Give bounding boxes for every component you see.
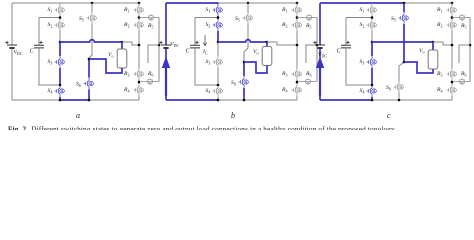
backup switch R3 (a) bbox=[134, 68, 144, 80]
wire S5 top lead (c) bbox=[403, 3, 405, 12]
wire load top to R-chain link (b) bbox=[267, 42, 297, 45]
svg-text:Vo: Vo bbox=[108, 52, 113, 58]
svg-text:R6: R6 bbox=[460, 71, 466, 77]
backup switch R2 (a) bbox=[134, 19, 144, 31]
svg-text:R5: R5 bbox=[147, 23, 153, 29]
node S1-S2 junction (a) bbox=[59, 16, 61, 19]
svg-text:S5: S5 bbox=[79, 16, 84, 22]
wire S1 top lead (c) bbox=[371, 3, 373, 4]
node top rail over S5 (a) bbox=[91, 2, 94, 5]
switch S4 (c) bbox=[367, 85, 377, 97]
svg-text:S2: S2 bbox=[360, 22, 365, 28]
wire capacitor top (a) bbox=[39, 17, 60, 19]
wire bottom rail left (b) bbox=[166, 99, 218, 101]
dc source V_DC plates bbox=[7, 44, 17, 46]
svg-text:R2: R2 bbox=[281, 22, 287, 28]
node top rail R-chain corner (c) bbox=[451, 2, 454, 5]
node top rail over S5 (c) bbox=[403, 2, 406, 5]
node load top (c) bbox=[432, 41, 435, 44]
backup switch R4 (a) bbox=[134, 84, 144, 96]
wire load bottom staircase (c) bbox=[404, 62, 433, 73]
svg-text:S3: S3 bbox=[206, 59, 211, 65]
wire capacitor top (b) bbox=[195, 17, 218, 19]
svg-text:S2: S2 bbox=[48, 22, 53, 28]
wire S5-S6 chain segment (b) bbox=[244, 24, 248, 62]
wire load bottom staircase (a) bbox=[89, 59, 122, 73]
svg-text:R2: R2 bbox=[123, 22, 129, 28]
svg-text:S5: S5 bbox=[391, 16, 396, 22]
dc source V_DC (a) bbox=[7, 45, 17, 48]
switch S3 (a) bbox=[55, 56, 65, 68]
switch S1 (b) bbox=[213, 4, 223, 16]
node S3-S4 capacitor junction (c) bbox=[371, 84, 374, 87]
load resistor box (a) bbox=[117, 49, 127, 68]
dc source V_DC (b) bbox=[161, 45, 171, 48]
svg-text:R5: R5 bbox=[460, 23, 466, 29]
wire top rail right (b) bbox=[248, 2, 297, 4]
wire battery lower (a) bbox=[11, 48, 13, 100]
backup switch R6 horizontal (a) bbox=[141, 78, 159, 84]
wire load top stub (a) bbox=[121, 42, 123, 49]
svg-text:S5: S5 bbox=[235, 16, 240, 22]
wire S6 to bottom rail (b) bbox=[243, 88, 245, 100]
wire S3 to junction (c) bbox=[371, 68, 373, 85]
wire node A to S3 (b) bbox=[217, 42, 219, 56]
node R1-R2 junction (a) bbox=[138, 16, 140, 19]
svg-text:S1: S1 bbox=[48, 7, 53, 13]
svg-text:S4: S4 bbox=[206, 88, 211, 94]
svg-text:S6: S6 bbox=[231, 80, 236, 86]
svg-text:R1: R1 bbox=[123, 7, 129, 13]
wire bottom rail right (a) bbox=[89, 99, 139, 101]
node bottom rail under S4 (c) bbox=[371, 99, 374, 102]
wire load top to R-chain link (a) bbox=[122, 42, 139, 45]
plus sign battery (b) bbox=[159, 41, 162, 44]
current arrow battery discharge (b) bbox=[165, 66, 167, 96]
node A dot (b) bbox=[217, 41, 220, 44]
wire R4 to bottom rail (b) bbox=[296, 96, 298, 100]
switch S6 (a) bbox=[84, 78, 94, 90]
node R3-R4 junction (b) bbox=[296, 80, 298, 84]
svg-text:VDC: VDC bbox=[318, 52, 327, 58]
wire node A to S3 (a) bbox=[59, 42, 61, 56]
switch S1 (c) bbox=[367, 4, 377, 16]
wire capacitor bottom (a) bbox=[39, 48, 60, 85]
svg-text:VDC: VDC bbox=[14, 50, 23, 56]
node S1-S2 junction (c) bbox=[371, 16, 373, 19]
wire S1 top lead (a) bbox=[59, 3, 61, 4]
switch S5 (a) bbox=[87, 12, 97, 24]
wire battery lower (b) bbox=[165, 48, 167, 100]
wire outer rail stub (c) bbox=[459, 45, 470, 63]
wire outer rail stub (a) bbox=[148, 45, 159, 63]
wire top rail mid (c) bbox=[372, 2, 404, 4]
svg-text:S3: S3 bbox=[360, 59, 365, 65]
wire S4 to bottom rail (c) bbox=[371, 97, 373, 100]
wire node A to load top with crossover hop (b) bbox=[218, 40, 267, 42]
wire bottom rail right (b) bbox=[244, 99, 297, 101]
wire bottom rail mid (b) bbox=[218, 99, 244, 101]
svg-text:R4: R4 bbox=[436, 87, 442, 93]
wire outer rail right (b) bbox=[316, 18, 318, 82]
wire R1 top lead (c) bbox=[451, 3, 453, 4]
node load bottom junction (c) bbox=[403, 61, 406, 64]
wire bottom rail mid (c) bbox=[372, 99, 399, 101]
wire R2 to mid junction (a) bbox=[138, 31, 140, 68]
wire R4 to bottom rail (c) bbox=[451, 96, 453, 100]
wire top rail right (a) bbox=[92, 2, 139, 4]
node top rail R-chain corner (a) bbox=[138, 2, 141, 5]
svg-text:S4: S4 bbox=[48, 88, 53, 94]
wire S2 to node A (c) bbox=[371, 31, 373, 42]
load resistor box (b) bbox=[262, 47, 272, 66]
wire S1 top lead (b) bbox=[217, 3, 219, 4]
svg-text:a: a bbox=[76, 111, 80, 120]
node bottom rail under S4 (a) bbox=[59, 99, 62, 102]
backup switch R5 horizontal (b) bbox=[297, 14, 317, 20]
backup switch R4 (b) bbox=[292, 84, 302, 96]
switch S2 (c) bbox=[367, 19, 377, 31]
wire load bottom staircase (b) bbox=[244, 62, 267, 73]
plus sign capacitor (b) bbox=[195, 41, 198, 44]
svg-text:R3: R3 bbox=[123, 71, 129, 77]
node R-chain mid (c) bbox=[451, 44, 454, 47]
wire capacitor bottom (c) bbox=[346, 48, 372, 85]
wire bottom rail left (c) bbox=[320, 99, 372, 101]
load resistor box (c) bbox=[428, 50, 438, 69]
node S3-S4 capacitor junction (b) bbox=[217, 84, 220, 87]
wire node A to load top with crossover hop (a) bbox=[60, 40, 122, 42]
wire S5-S6 chain segment (a) bbox=[89, 24, 92, 59]
plus sign battery (a) bbox=[5, 41, 8, 44]
switch S6 (b) bbox=[239, 76, 249, 88]
wire battery upper (a) bbox=[11, 3, 13, 45]
wire node A to S3 (c) bbox=[371, 42, 373, 56]
switch S3 (c) bbox=[367, 56, 377, 68]
svg-text:R5: R5 bbox=[305, 23, 311, 29]
backup switch R2 (c) bbox=[447, 19, 457, 31]
backup switch R5 horizontal (c) bbox=[452, 14, 470, 20]
wire top rail left (b) bbox=[166, 2, 218, 4]
svg-text:S2: S2 bbox=[206, 22, 211, 28]
capacitor C (b) bbox=[190, 45, 200, 48]
svg-text:R2: R2 bbox=[436, 22, 442, 28]
backup switch R1 (a) bbox=[134, 4, 144, 16]
wire battery upper (b) bbox=[165, 3, 167, 45]
node R1-R2 junction (b) bbox=[296, 16, 298, 19]
wire S5-S6 chain segment (a) bbox=[88, 59, 90, 78]
wire outer rail right (c) bbox=[469, 18, 471, 82]
capacitor C (c) bbox=[341, 45, 351, 48]
switch S2 (a) bbox=[55, 19, 65, 31]
svg-text:S1: S1 bbox=[360, 7, 365, 13]
wire capacitor top (c) bbox=[346, 17, 372, 19]
svg-text:c: c bbox=[387, 111, 391, 120]
wire battery lower (c) bbox=[319, 48, 321, 100]
wire S3 to junction (a) bbox=[59, 68, 61, 85]
wire S5-S6 chain segment (c) bbox=[399, 62, 404, 81]
node A dot (c) bbox=[371, 41, 374, 44]
switch S4 (a) bbox=[55, 85, 65, 97]
wire S2 to node A (b) bbox=[217, 31, 219, 42]
dc source V_DC plates bbox=[315, 44, 325, 46]
node S1-S2 junction (b) bbox=[217, 16, 219, 19]
svg-text:VDC: VDC bbox=[170, 42, 179, 48]
switch S5 (c) bbox=[399, 12, 409, 24]
node A dot (a) bbox=[59, 41, 62, 44]
switch S4 (b) bbox=[213, 85, 223, 97]
wire S5 top lead (b) bbox=[247, 3, 249, 12]
node bottom rail under S4 (b) bbox=[217, 99, 220, 102]
node load top (a) bbox=[121, 41, 124, 44]
wire top rail left (c) bbox=[320, 2, 372, 4]
backup switch R2 (b) bbox=[292, 19, 302, 31]
backup switch R6 horizontal (b) bbox=[299, 78, 317, 84]
wire top rail right (c) bbox=[404, 2, 452, 4]
dc source V_DC (c) bbox=[315, 45, 325, 48]
backup switch R5 horizontal (a) bbox=[139, 14, 159, 20]
svg-text:R6: R6 bbox=[147, 71, 153, 77]
svg-text:R4: R4 bbox=[123, 87, 129, 93]
svg-text:S6: S6 bbox=[386, 85, 391, 91]
node top rail over S5 (b) bbox=[247, 2, 250, 5]
wire outer rail stub (b) bbox=[306, 45, 317, 63]
node bottom rail under S6 (a) bbox=[88, 99, 91, 102]
wire node A to load top with crossover hop (c) bbox=[372, 41, 433, 43]
svg-text:S6: S6 bbox=[76, 82, 81, 88]
wire R2 to mid junction (b) bbox=[296, 31, 298, 68]
plus sign capacitor (c) bbox=[346, 41, 349, 44]
svg-text:R4: R4 bbox=[281, 87, 287, 93]
svg-text:S3: S3 bbox=[48, 59, 53, 65]
wire S4 to bottom rail (b) bbox=[217, 97, 219, 100]
node R-chain mid (b) bbox=[296, 44, 299, 47]
node top rail R-chain corner (b) bbox=[296, 2, 299, 5]
switch S1 (a) bbox=[55, 4, 65, 16]
node bottom rail under S6 (b) bbox=[243, 99, 246, 102]
wire load top stub (c) bbox=[432, 42, 434, 50]
wire load top to R-chain link (c) bbox=[433, 42, 452, 45]
node outer rail T (a) bbox=[158, 44, 161, 47]
plus sign capacitor (a) bbox=[39, 41, 42, 44]
plus sign battery (c) bbox=[313, 41, 316, 44]
node outer rail T (c) bbox=[469, 44, 472, 47]
node load bottom junction (a) bbox=[88, 58, 91, 61]
wire S5 top lead (a) bbox=[91, 3, 93, 12]
wire R2 to mid junction (c) bbox=[451, 31, 453, 68]
node S3-S4 capacitor junction (a) bbox=[59, 84, 62, 87]
svg-text:Vo: Vo bbox=[253, 49, 258, 55]
capacitor charge current arrow I_C (b) bbox=[203, 35, 206, 46]
wire top rail left (a) bbox=[12, 2, 60, 4]
wire R1 top lead (a) bbox=[138, 3, 140, 4]
node R3-R4 junction (c) bbox=[451, 80, 453, 84]
switch S6 (c) bbox=[394, 81, 404, 93]
svg-text:R3: R3 bbox=[436, 71, 442, 77]
svg-text:Fig. 2.Different switching sta: Fig. 2.Different switching states to gen… bbox=[8, 125, 395, 130]
node outer rail T (b) bbox=[316, 44, 319, 47]
capacitor C (a) bbox=[34, 45, 44, 48]
backup switch R1 (b) bbox=[292, 4, 302, 16]
svg-text:S1: S1 bbox=[206, 7, 211, 13]
svg-text:R6: R6 bbox=[305, 71, 311, 77]
wire S4 to bottom rail (a) bbox=[59, 97, 61, 100]
svg-text:IC: IC bbox=[202, 49, 208, 55]
svg-text:R3: R3 bbox=[281, 71, 287, 77]
wire R4 to bottom rail (a) bbox=[138, 96, 140, 100]
current arrow battery discharge (c) bbox=[319, 66, 321, 96]
backup switch R3 (b) bbox=[292, 68, 302, 80]
node R3-R4 junction (a) bbox=[138, 80, 140, 84]
svg-text:R1: R1 bbox=[436, 7, 442, 13]
node bottom rail under S6 (c) bbox=[398, 99, 401, 102]
switch S5 (b) bbox=[243, 12, 253, 24]
wire S5-S6 chain segment (b) bbox=[243, 62, 245, 76]
svg-text:S4: S4 bbox=[360, 88, 365, 94]
wire battery upper (c) bbox=[319, 3, 321, 45]
wire S3 to junction (b) bbox=[217, 68, 219, 85]
switch S2 (b) bbox=[213, 19, 223, 31]
dc source V_DC plates bbox=[161, 44, 171, 46]
wire R1 top lead (b) bbox=[296, 3, 298, 4]
wire S2 to node A (a) bbox=[59, 31, 61, 42]
node load top (b) bbox=[266, 41, 269, 44]
backup switch R3 (c) bbox=[447, 68, 457, 80]
wire outer rail right (a) bbox=[158, 18, 160, 82]
wire S6 to bottom rail (a) bbox=[88, 90, 90, 101]
backup switch R1 (c) bbox=[447, 4, 457, 16]
wire capacitor bottom (b) bbox=[195, 48, 218, 85]
wire bottom rail right (c) bbox=[399, 99, 452, 101]
svg-text:R1: R1 bbox=[281, 7, 287, 13]
wire bottom rail mid (a) bbox=[60, 99, 89, 101]
wire S5-S6 chain segment (c) bbox=[403, 24, 405, 62]
node load bottom junction (b) bbox=[243, 61, 246, 64]
svg-text:b: b bbox=[231, 111, 235, 120]
wire top rail mid (a) bbox=[60, 2, 92, 4]
wire S6 to bottom rail (c) bbox=[398, 93, 400, 100]
node R-chain mid (a) bbox=[138, 44, 141, 47]
backup switch R4 (c) bbox=[447, 84, 457, 96]
node R1-R2 junction (c) bbox=[451, 16, 453, 19]
backup switch R6 horizontal (c) bbox=[454, 78, 470, 84]
wire top rail mid (b) bbox=[218, 2, 248, 4]
wire bottom rail left (a) bbox=[12, 99, 60, 101]
svg-text:Vo: Vo bbox=[419, 48, 424, 54]
switch S3 (b) bbox=[213, 56, 223, 68]
wire load top stub (b) bbox=[266, 42, 268, 47]
